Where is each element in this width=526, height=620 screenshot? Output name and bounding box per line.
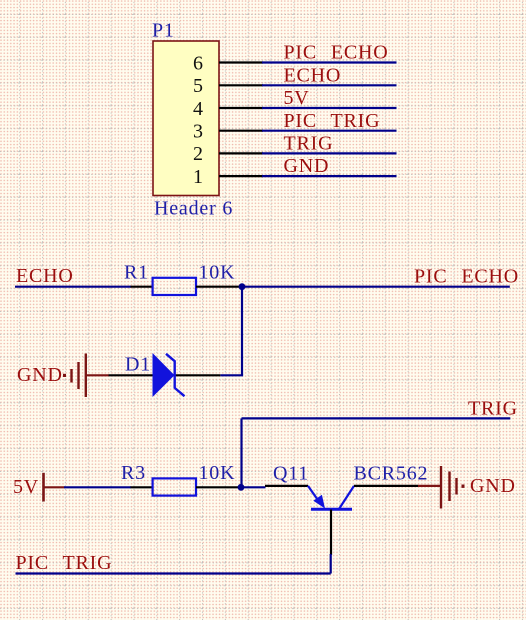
- wire node A down to D1: [241, 287, 243, 376]
- wire PIC_TRIG up to Q11 base: [330, 554, 332, 574]
- svg-text:BCR562: BCR562: [354, 463, 429, 485]
- wire TRIG down to node B: [240, 418, 242, 487]
- wire junction to PIC_ECHO: [239, 286, 510, 288]
- diode D1 anode triangle: [153, 353, 175, 397]
- wire net PIC_ECHO (pin 6): [262, 61, 397, 63]
- svg-text:PIC TRIG: PIC TRIG: [284, 110, 381, 132]
- svg-text:4: 4: [193, 98, 203, 120]
- wire net ECHO (pin 5): [262, 84, 397, 86]
- junction node A: [239, 283, 246, 290]
- svg-text:10K: 10K: [199, 261, 236, 283]
- diode D1 cathode bar: [173, 361, 175, 389]
- power GND (right) mid bar: [448, 472, 450, 502]
- svg-text:R3: R3: [121, 462, 146, 484]
- transistor Q11 emitter pin: [265, 485, 308, 487]
- wire net TRIG horizontal: [242, 417, 511, 419]
- resistor R1 left pin: [131, 286, 153, 288]
- connector P1 body: [153, 41, 219, 196]
- resistor R1 right pin: [196, 286, 239, 288]
- wire D1 cathode to vertical: [220, 374, 243, 376]
- svg-text:1: 1: [193, 166, 203, 188]
- power GND (left) stem: [86, 374, 109, 376]
- svg-text:R1: R1: [124, 261, 149, 283]
- pin 6 stub: [219, 61, 263, 63]
- svg-text:6: 6: [193, 52, 203, 74]
- power GND (left) mid bar: [77, 362, 79, 389]
- resistor R3 body: [153, 478, 196, 495]
- svg-text:PIC TRIG: PIC TRIG: [16, 552, 113, 574]
- svg-text:5V: 5V: [284, 87, 310, 109]
- wire net TRIG (pin 2): [262, 152, 397, 154]
- resistor R3 right pin: [196, 486, 239, 488]
- wire net PIC_TRIG (pin 3): [262, 130, 397, 132]
- power GND (right) stem: [418, 485, 441, 487]
- svg-text:GND: GND: [470, 475, 516, 497]
- wire net 5V (pin 4): [262, 107, 397, 109]
- diode D1 zener top tick: [166, 354, 175, 362]
- svg-text:P1: P1: [152, 19, 175, 41]
- power GND (left) short bar: [70, 369, 72, 383]
- transistor Q11 collector diagonal: [339, 486, 354, 509]
- transistor Q11 base pin: [330, 510, 332, 556]
- diode D1 cathode pin: [175, 374, 220, 376]
- svg-text:ECHO: ECHO: [16, 265, 74, 287]
- svg-text:GND: GND: [284, 155, 330, 177]
- wire net PIC_TRIG horizontal: [16, 572, 331, 574]
- power GND (right) long bar: [440, 466, 442, 509]
- wire 5V to R3: [64, 486, 131, 488]
- pin 5 stub: [219, 84, 263, 86]
- pin 3 stub: [219, 130, 263, 132]
- svg-text:Q11: Q11: [273, 463, 309, 485]
- pin 2 stub: [219, 152, 263, 154]
- diode D1 anode pin: [109, 374, 153, 376]
- junction node B: [238, 484, 245, 491]
- resistor R3 left pin: [131, 486, 153, 488]
- power 5V bar: [42, 473, 45, 502]
- svg-text:GND: GND: [17, 364, 63, 386]
- svg-text:PIC ECHO: PIC ECHO: [284, 42, 389, 64]
- transistor Q11 emitter arrow: [313, 495, 325, 509]
- svg-text:5: 5: [193, 75, 203, 97]
- svg-text:D1: D1: [125, 353, 151, 375]
- transistor Q11 emitter diagonal: [308, 486, 320, 503]
- svg-text:TRIG: TRIG: [284, 133, 334, 155]
- resistor R1 body: [153, 278, 196, 295]
- svg-text:Header 6: Header 6: [154, 198, 233, 220]
- svg-text:PIC ECHO: PIC ECHO: [414, 265, 519, 287]
- svg-text:2: 2: [193, 143, 203, 165]
- power GND (right) dot: [462, 485, 465, 488]
- power 5V stem: [44, 486, 65, 488]
- svg-text:5V: 5V: [13, 476, 39, 498]
- svg-text:TRIG: TRIG: [468, 398, 518, 420]
- transistor Q11 base bar: [311, 508, 352, 511]
- svg-text:10K: 10K: [199, 462, 236, 484]
- svg-text:ECHO: ECHO: [284, 64, 342, 86]
- wire ECHO to R1: [15, 286, 131, 288]
- diode D1 zener bottom tick: [175, 388, 185, 396]
- wire net GND (pin 1): [262, 175, 397, 177]
- power GND (left) long bar: [85, 354, 87, 398]
- transistor Q11 collector pin: [354, 485, 418, 487]
- pin 1 stub: [219, 175, 263, 177]
- pin 4 stub: [219, 107, 263, 109]
- power GND (left) dot: [63, 374, 66, 377]
- wire node B to Q11: [241, 486, 266, 488]
- svg-text:3: 3: [193, 121, 203, 143]
- power GND (right) short bar: [455, 478, 457, 495]
